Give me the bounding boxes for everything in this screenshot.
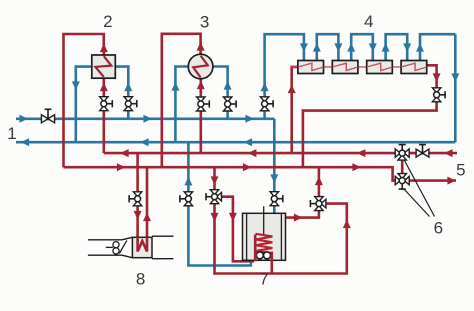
svg-text:8: 8: [136, 269, 145, 288]
svg-text:7: 7: [259, 269, 268, 288]
svg-text:3: 3: [200, 12, 209, 31]
svg-text:4: 4: [364, 12, 373, 31]
svg-text:5: 5: [456, 160, 465, 179]
svg-text:2: 2: [103, 12, 112, 31]
svg-text:1: 1: [7, 124, 16, 143]
svg-text:6: 6: [434, 219, 443, 238]
